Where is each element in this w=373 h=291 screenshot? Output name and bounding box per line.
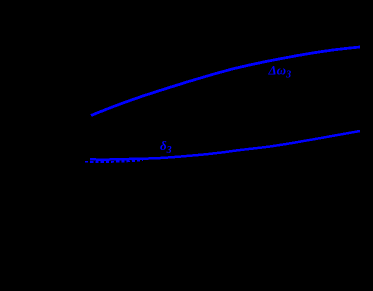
lower curve δ3 dashed companion [85,160,143,162]
svg-text:Δω3: Δω3 [268,63,292,81]
lower curve δ3 solid [90,131,360,160]
svg-text:δ3: δ3 [160,138,172,156]
upper curve Δω3 [91,47,360,116]
